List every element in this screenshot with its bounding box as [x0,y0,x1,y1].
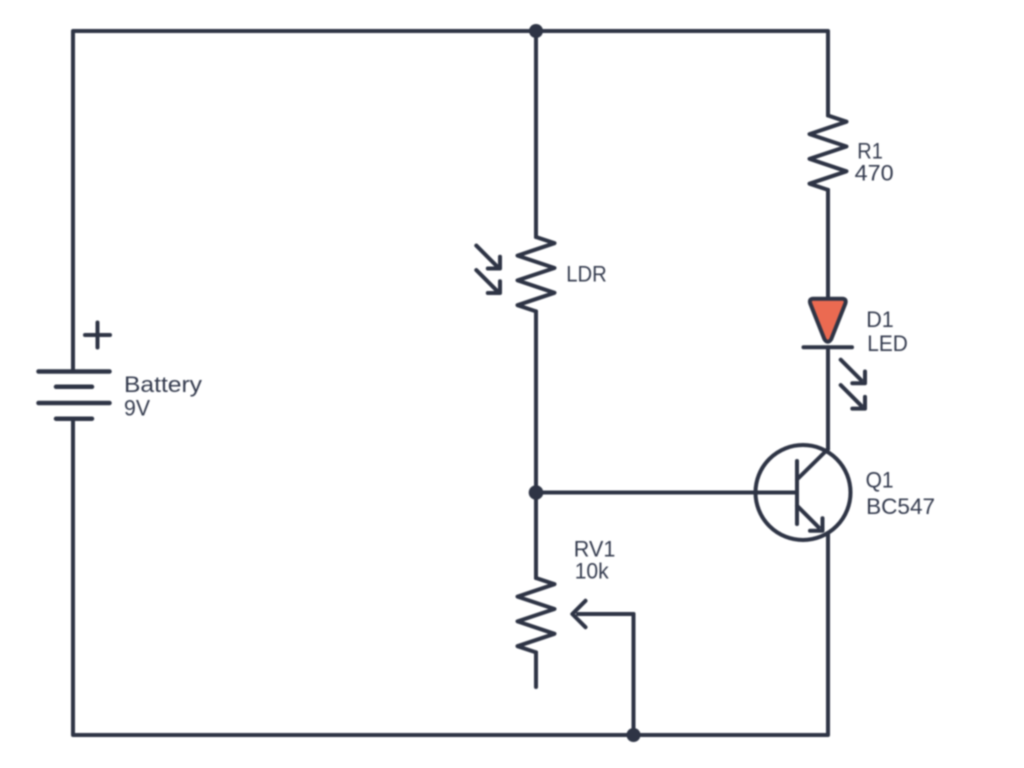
node: base junction [529,485,544,500]
svg-text:Battery: Battery [124,372,202,397]
svg-text:10k: 10k [575,559,610,584]
svg-text:Q1: Q1 [866,468,894,493]
wire: base junction down to RV1 [534,493,538,579]
svg-text:9V: 9V [124,395,150,420]
RV1 wiper arrow [572,601,633,627]
wire: R1 to LED anode [826,190,830,299]
wire: battery + terminal up, top-left corner, top rail left half [73,31,536,372]
resistor LDR zigzag [518,237,555,311]
svg-text:D1: D1 [866,307,894,332]
battery BT1 plates [39,372,110,419]
node: top junction [529,24,543,38]
wire: top rail right half, top-right corner, down to R1 [536,31,828,116]
LDR light arrow 2 [476,270,500,293]
wire: battery - terminal down, bottom-left corner, bottom rail to junction [73,419,634,735]
wire: wiper down to bottom junction [632,614,636,735]
diode D1 LED triangle [810,299,846,342]
node: bottom junction [627,728,641,742]
svg-text:LDR: LDR [566,261,607,286]
svg-text:LED: LED [867,331,908,356]
wire: middle rail from LDR to base junction [534,311,538,492]
D1 light arrow 2 [841,385,865,409]
D1 cathode bar [804,345,853,349]
svg-text:BC547: BC547 [866,494,935,519]
transistor Q1 circle [756,445,851,540]
LDR light arrow 1 [476,246,500,269]
wire: bottom rail right half, bottom-right corner, up to Q1 emitter [634,533,829,735]
Q1 emitter diagonal with arrowhead [797,506,823,531]
Q1 collector diagonal [797,449,828,480]
wire: middle rail from top junction to LDR [534,31,538,237]
potentiometer RV1 zigzag [518,578,555,652]
battery plus sign [85,323,110,348]
RV1 bottom stub (unconnected) [534,652,538,687]
wire: LED cathode down to collector [826,347,830,449]
D1 light arrow 1 [841,360,865,384]
resistor R1 zigzag [810,116,847,190]
wire: base junction to transistor base [536,491,797,495]
svg-text:470: 470 [855,161,894,186]
Q1 base bar [795,461,799,524]
